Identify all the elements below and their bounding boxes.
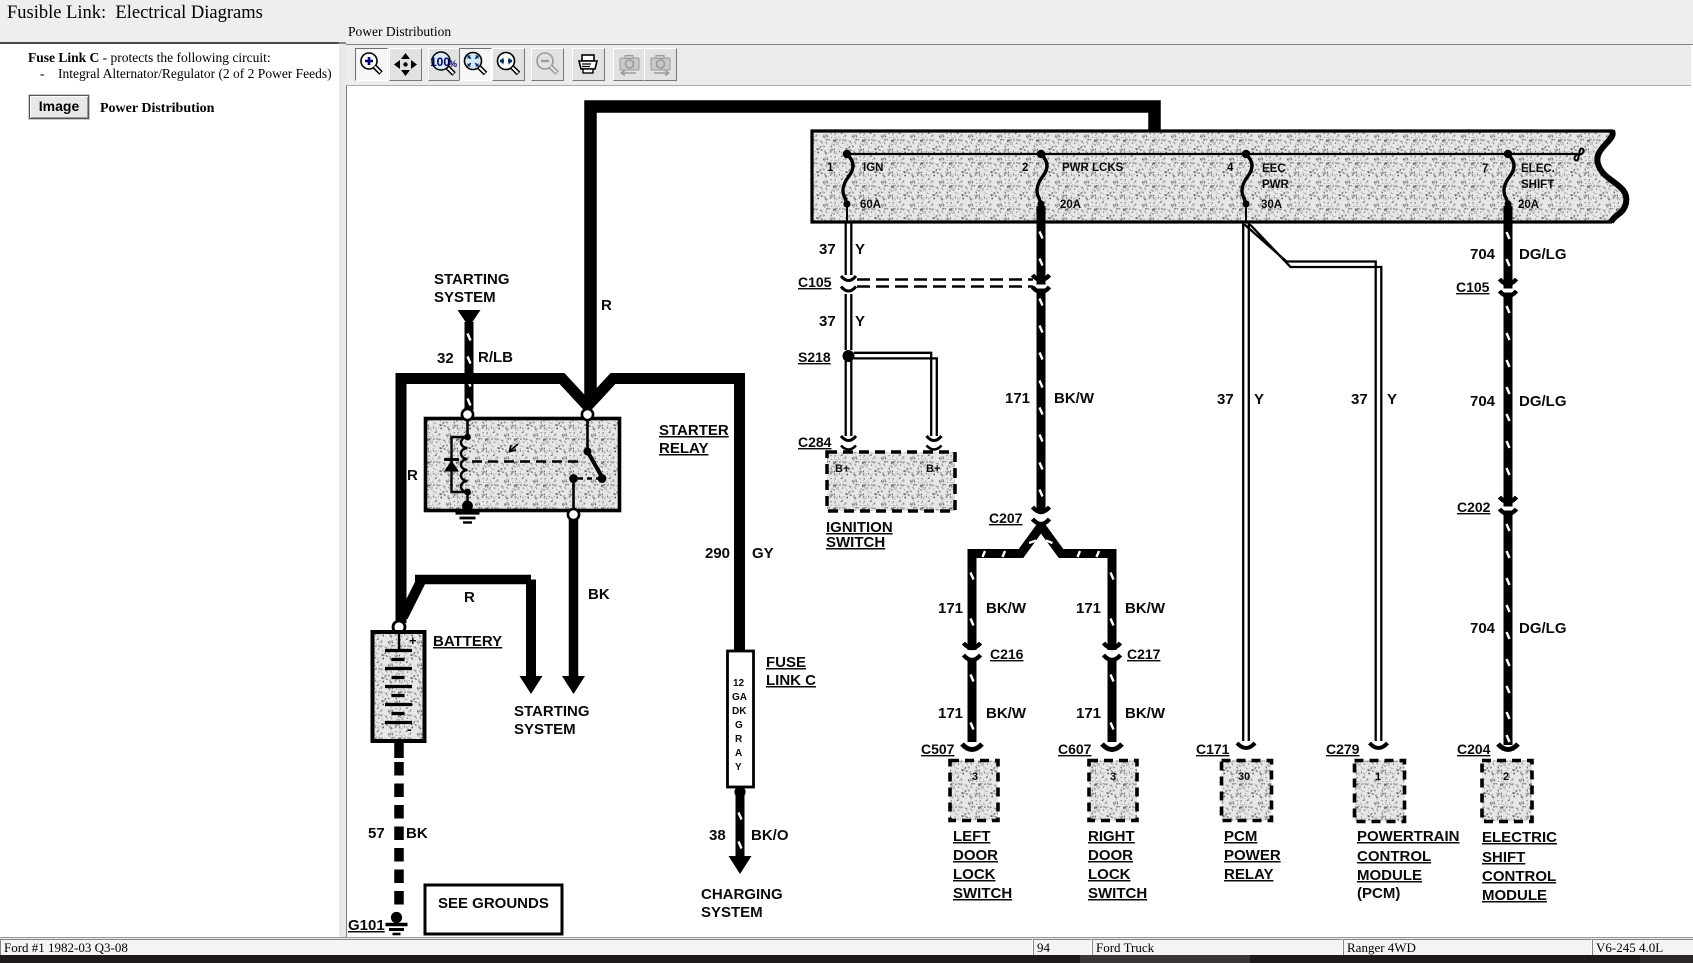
connector C171 — [1196, 741, 1255, 757]
svg-text:RIGHT: RIGHT — [1088, 828, 1135, 845]
svg-text:R: R — [735, 734, 743, 745]
connector C105 (left) — [798, 274, 856, 291]
wire 171 BK/W right branch labels — [1076, 600, 1166, 617]
svg-text:B+: B+ — [926, 463, 940, 475]
wire 37 Y from IGN fuse — [819, 222, 865, 275]
svg-text:POWER: POWER — [1224, 847, 1281, 864]
svg-text:GA: GA — [732, 692, 747, 703]
header title — [7, 3, 263, 24]
svg-text:PCM: PCM — [1224, 828, 1257, 845]
svg-text:3: 3 — [1110, 771, 1116, 783]
svg-text:SWITCH: SWITCH — [953, 885, 1012, 902]
wire 171 BK/W left branch labels — [938, 600, 1027, 617]
svg-text:GY: GY — [752, 545, 774, 562]
svg-text:BK/O: BK/O — [751, 827, 789, 844]
pcm power relay box — [1222, 761, 1281, 884]
connector C202 — [1457, 497, 1517, 515]
toolbar button: zoom width — [492, 48, 525, 81]
svg-text:CONTROL: CONTROL — [1482, 868, 1556, 885]
fuse 4 EEC PWR 30A — [1227, 150, 1290, 222]
svg-text:171: 171 — [1005, 390, 1030, 407]
toolbar button: zoom 100% — [428, 48, 461, 81]
diagram panel — [346, 44, 1693, 938]
svg-text:SWITCH: SWITCH — [1088, 885, 1147, 902]
svg-text:30: 30 — [1238, 771, 1250, 783]
svg-text:37: 37 — [819, 313, 836, 330]
relay coil — [461, 420, 471, 495]
splice S218 — [798, 349, 855, 365]
svg-text:SHIFT: SHIFT — [1521, 179, 1554, 191]
label R on main vertical feed — [601, 297, 612, 314]
wire 171 BK/W trunk from PWR LCKS fuse — [1005, 206, 1095, 512]
label R (battery feed) — [407, 467, 418, 484]
svg-text:290: 290 — [705, 545, 730, 562]
svg-text:1: 1 — [1375, 771, 1381, 783]
svg-text:30A: 30A — [1261, 199, 1282, 211]
svg-text:Y: Y — [1254, 391, 1264, 408]
svg-text:BK/W: BK/W — [1125, 705, 1166, 722]
ground G101 — [348, 912, 408, 934]
svg-text:38: 38 — [709, 827, 726, 844]
relay diode — [444, 437, 468, 492]
connector C105 on BK/W wire — [1033, 275, 1050, 292]
svg-text:R: R — [601, 297, 612, 314]
fuse link C element — [728, 651, 817, 787]
wire 704 DG/LG from ELEC SHIFT fuse — [1470, 206, 1567, 745]
svg-text:171: 171 — [1076, 600, 1101, 617]
svg-text:EEC: EEC — [1262, 163, 1286, 175]
svg-text:STARTER: STARTER — [659, 422, 729, 439]
svg-text:-: - — [407, 721, 412, 737]
svg-text:PWR: PWR — [1262, 179, 1290, 191]
svg-text:1: 1 — [827, 162, 834, 174]
svg-text:7: 7 — [1482, 163, 1488, 175]
svg-text:A: A — [735, 748, 742, 759]
starter relay box — [426, 419, 729, 511]
battery box — [373, 632, 503, 741]
battery positive terminal — [393, 621, 405, 633]
electric shift control module box — [1482, 761, 1557, 905]
fuse panel box — [812, 131, 1626, 222]
svg-text:BK/W: BK/W — [1125, 600, 1166, 617]
svg-text:C284: C284 — [798, 434, 832, 450]
svg-text:171: 171 — [1076, 705, 1101, 722]
svg-text:IGN: IGN — [863, 162, 883, 174]
starter relay terminal (switch side) — [582, 409, 593, 420]
svg-text:100: 100 — [431, 55, 450, 69]
svg-text:704: 704 — [1470, 620, 1496, 637]
svg-text:SHIFT: SHIFT — [1482, 849, 1525, 866]
bottom dark strip — [0, 955, 1693, 963]
svg-text:STARTING: STARTING — [434, 271, 510, 288]
svg-text:R: R — [407, 467, 418, 484]
svg-text:4: 4 — [1227, 162, 1234, 174]
svg-text:C216: C216 — [990, 646, 1024, 662]
connector C284 — [798, 434, 942, 450]
toolbar button: pan — [389, 48, 422, 81]
svg-text:C507: C507 — [921, 741, 955, 757]
svg-text:171: 171 — [938, 705, 963, 722]
svg-text:704: 704 — [1470, 246, 1496, 263]
relay internal ground — [456, 492, 480, 523]
wire split C207 to left/right branches — [971, 526, 1114, 650]
wire BK starter relay to starting system — [562, 519, 610, 694]
svg-text:Y: Y — [855, 241, 865, 258]
svg-text:C171: C171 — [1196, 741, 1230, 757]
svg-text:(PCM): (PCM) — [1357, 885, 1400, 902]
svg-text:DG/LG: DG/LG — [1519, 246, 1567, 263]
starter relay output terminal — [568, 509, 579, 520]
svg-text:SYSTEM: SYSTEM — [701, 904, 763, 921]
fuse 7 ELEC SHIFT 20A — [1482, 150, 1555, 211]
svg-text:DG/LG: DG/LG — [1519, 393, 1567, 410]
svg-text:LINK C: LINK C — [766, 672, 816, 689]
ignition switch box — [826, 452, 955, 551]
svg-text:RELAY: RELAY — [1224, 866, 1273, 883]
starting system destination label — [514, 703, 590, 738]
svg-text:CHARGING: CHARGING — [701, 886, 783, 903]
svg-text:LOCK: LOCK — [953, 866, 996, 883]
wire 37 Y from EEC PWR fuse to C171 — [1217, 223, 1264, 741]
svg-text:MODULE: MODULE — [1357, 867, 1422, 884]
svg-text:704: 704 — [1470, 393, 1496, 410]
svg-text:+: + — [409, 633, 417, 648]
svg-text:FUSE: FUSE — [766, 654, 806, 671]
wire 37 Y from EEC PWR fuse to C279 — [1245, 225, 1398, 742]
svg-text:STARTING: STARTING — [514, 703, 590, 720]
svg-text:RELAY: RELAY — [659, 440, 708, 457]
svg-text:C202: C202 — [1457, 499, 1491, 515]
svg-text:DK: DK — [732, 706, 747, 717]
svg-text:C217: C217 — [1127, 646, 1161, 662]
svg-text:37: 37 — [1217, 391, 1234, 408]
right door lock switch box — [1088, 761, 1147, 903]
node: junction on fuse panel bus — [1148, 150, 1157, 159]
connector C607 — [1058, 741, 1122, 757]
svg-text:BK: BK — [588, 586, 610, 603]
svg-text:DOOR: DOOR — [1088, 847, 1133, 864]
svg-text:DOOR: DOOR — [953, 847, 998, 864]
toolbar button: previous image (disabled) — [613, 48, 646, 81]
connector C279 — [1326, 741, 1388, 757]
svg-text:POWERTRAIN: POWERTRAIN — [1357, 828, 1460, 845]
Image button — [29, 95, 89, 119]
svg-text:C105: C105 — [798, 274, 832, 290]
connector C207 — [989, 507, 1050, 526]
svg-text:C207: C207 — [989, 510, 1023, 526]
wire C217 to C607 — [1076, 660, 1166, 742]
wire battery negative 57 BK — [368, 741, 428, 910]
svg-text:Y: Y — [855, 313, 865, 330]
svg-text:C279: C279 — [1326, 741, 1360, 757]
charging system destination label — [701, 886, 783, 921]
svg-text:Y: Y — [735, 762, 742, 773]
connector C507 — [921, 741, 982, 757]
C105 bulkhead dashed boundary — [857, 280, 1033, 287]
svg-text:60A: 60A — [860, 199, 881, 211]
svg-text:G: G — [735, 720, 743, 731]
svg-text:20A: 20A — [1060, 199, 1081, 211]
toolbar button: zoom out (disabled) — [531, 48, 564, 81]
svg-text:DG/LG: DG/LG — [1519, 620, 1567, 637]
left panel — [0, 42, 339, 939]
svg-text:3: 3 — [972, 771, 978, 783]
svg-text:SYSTEM: SYSTEM — [514, 721, 576, 738]
wire starting system input 32 R/LB — [434, 271, 513, 410]
svg-text:SYSTEM: SYSTEM — [434, 289, 496, 306]
svg-text:37: 37 — [819, 241, 836, 258]
wire battery trunk (left vertical + horizontal with V + right vertical to fuse link) — [401, 379, 740, 651]
svg-text:B+: B+ — [835, 463, 849, 475]
wire C216 to C507 — [938, 660, 1027, 742]
wire R to starting system — [403, 580, 543, 695]
svg-text:12: 12 — [733, 678, 745, 689]
wire 37 Y from C105 to S218 — [819, 294, 865, 350]
wire 290 GY relay output to fuse link — [705, 375, 774, 562]
relay switch — [569, 420, 606, 510]
connector C216 — [964, 643, 1024, 662]
svg-text:57: 57 — [368, 825, 385, 842]
svg-text:CONTROL: CONTROL — [1357, 848, 1431, 865]
svg-text:G101: G101 — [348, 917, 385, 934]
see grounds note box — [425, 885, 562, 934]
svg-text:BK: BK — [406, 825, 428, 842]
svg-text:BK/W: BK/W — [1054, 390, 1095, 407]
wire S218 to C284 left branch — [846, 361, 852, 436]
connector C217 — [1104, 643, 1161, 662]
svg-text:BK/W: BK/W — [986, 600, 1027, 617]
svg-text:2: 2 — [1022, 162, 1028, 174]
svg-text:R/LB: R/LB — [478, 349, 513, 366]
svg-text:171: 171 — [938, 600, 963, 617]
starter relay terminal (coil side) — [462, 409, 473, 420]
svg-text:20A: 20A — [1518, 199, 1539, 211]
status bar — [0, 937, 1693, 956]
svg-text:ELEC.: ELEC. — [1521, 163, 1555, 175]
svg-text:ELECTRIC: ELECTRIC — [1482, 829, 1557, 846]
svg-text:C607: C607 — [1058, 741, 1092, 757]
svg-text:LOCK: LOCK — [1088, 866, 1131, 883]
toolbar button: zoom fit (selected) — [459, 48, 492, 81]
wire R main feed from alternator (top horizontal + vertical) — [591, 107, 1155, 403]
fuse 2 PWR LCKS 20A — [1022, 150, 1124, 211]
svg-text:SEE GROUNDS: SEE GROUNDS — [438, 895, 549, 912]
diagram pane label — [348, 24, 451, 40]
svg-text:C204: C204 — [1457, 741, 1491, 757]
toolbar button: next image (disabled) — [644, 48, 677, 81]
connector C204 — [1457, 741, 1518, 757]
left door lock switch box — [950, 761, 1012, 903]
toolbar button: zoom in — [355, 48, 388, 81]
svg-text:2: 2 — [1503, 771, 1509, 783]
svg-text:Y: Y — [1387, 391, 1397, 408]
svg-text:PWR LCKS: PWR LCKS — [1062, 162, 1124, 174]
wire S218 to C284 right branch — [854, 353, 937, 436]
svg-text:LEFT: LEFT — [953, 828, 991, 845]
toolbar button: print — [572, 48, 605, 81]
svg-text:BATTERY: BATTERY — [433, 633, 502, 650]
svg-text:MODULE: MODULE — [1482, 887, 1547, 904]
powertrain control module box — [1355, 761, 1460, 903]
svg-text:S218: S218 — [798, 349, 831, 365]
left panel text — [28, 50, 271, 66]
svg-text:37: 37 — [1351, 391, 1368, 408]
svg-text:SWITCH: SWITCH — [826, 534, 885, 551]
svg-text:32: 32 — [437, 350, 454, 367]
svg-text:C105: C105 — [1456, 279, 1490, 295]
toolbar — [346, 45, 1691, 86]
svg-text:R: R — [464, 589, 475, 606]
svg-text:BK/W: BK/W — [986, 705, 1027, 722]
relay actuation dashed link — [472, 444, 584, 462]
connector C105 (right) — [1456, 279, 1517, 296]
wire 38 BK/O to charging system — [709, 786, 789, 874]
fuse 1 IGN 60A — [827, 150, 883, 222]
